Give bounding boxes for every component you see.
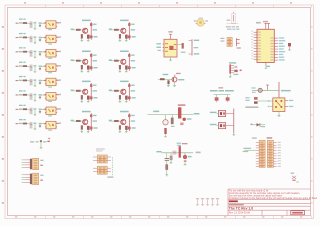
net label OUT1 bbox=[57, 22, 61, 23]
resistor pulldown R7p bbox=[81, 125, 83, 129]
global label IN8 bbox=[16, 123, 18, 124]
pin names right U1 bbox=[270, 37, 273, 60]
resistor base R7b bbox=[76, 120, 81, 122]
jumper JP1 bbox=[215, 95, 219, 103]
bottom margin zone numbers bbox=[15, 216, 302, 217]
reference text JP bbox=[218, 87, 223, 88]
fuse F2 bbox=[179, 146, 181, 158]
jumper JP2 bbox=[226, 95, 230, 103]
resistor R22 bbox=[167, 80, 169, 84]
collector rail wire Q3 bbox=[90, 53, 92, 71]
wire power bus bbox=[148, 114, 194, 116]
diode D41 bbox=[39, 65, 42, 70]
reference text RN1 bbox=[220, 38, 224, 42]
sheet text bbox=[229, 204, 244, 205]
ground Q6 right bbox=[125, 100, 128, 102]
net label base Q4 bbox=[109, 59, 112, 60]
pin stubs left K10 bbox=[270, 101, 273, 107]
label above Q4 bbox=[120, 51, 129, 53]
value text U1 bbox=[48, 29, 52, 30]
net label base Q3 bbox=[71, 59, 74, 60]
title block border bbox=[228, 189, 311, 216]
resistor pulldown R2p bbox=[119, 34, 121, 38]
pin stubs right K10 bbox=[285, 101, 288, 107]
value text U2 bbox=[48, 44, 52, 45]
wire cap feed bbox=[252, 89, 279, 91]
pin stubs RN3 left bbox=[93, 168, 97, 172]
capacitor C30 bbox=[171, 115, 175, 127]
ground Q7 right bbox=[87, 130, 90, 132]
diode D20 bbox=[234, 70, 237, 72]
pin label 4 bbox=[44, 66, 46, 67]
power flag PWR1 bbox=[196, 198, 199, 205]
wire K2 right bbox=[226, 125, 234, 127]
resistor pulldown R1p bbox=[81, 34, 83, 38]
resistor emitter R8e bbox=[125, 126, 128, 130]
value text C71 bbox=[33, 108, 36, 109]
value text D41 bbox=[261, 126, 265, 127]
net label right Q1 bbox=[93, 29, 98, 30]
transistor Q3 bbox=[83, 59, 88, 64]
ground filter bbox=[40, 147, 43, 150]
net label OUT8 bbox=[57, 123, 61, 124]
reference text left of K10 bbox=[245, 106, 258, 108]
collector rail wire Q7 bbox=[90, 113, 92, 131]
wire to opto row 2 bbox=[42, 37, 47, 39]
pin names left U1 bbox=[258, 32, 261, 61]
net label OUT4 bbox=[57, 65, 61, 66]
reference text C40 bbox=[252, 92, 256, 93]
wire input row 3 bbox=[17, 51, 24, 53]
wire C71 down bbox=[34, 108, 36, 115]
pin stubs RN2 right bbox=[107, 157, 111, 161]
resistor emitter R2e bbox=[125, 35, 128, 39]
reference text R31 bbox=[19, 51, 22, 52]
label above Q6 bbox=[120, 81, 129, 83]
wire input row 2 bbox=[17, 37, 24, 39]
no-connect flag bbox=[292, 176, 296, 179]
diode D51 bbox=[39, 80, 42, 85]
net label right Q5 bbox=[93, 90, 98, 91]
diode D7b bbox=[90, 127, 98, 130]
pin label 7 bbox=[44, 109, 46, 110]
pin label 1 bbox=[44, 23, 46, 24]
pin label 5 bbox=[44, 80, 46, 81]
ground Q9 left bbox=[167, 84, 170, 86]
svg-text:Rev 1.0 2014-03-08: Rev 1.0 2014-03-08 bbox=[229, 211, 251, 214]
base wire Q3 bbox=[71, 60, 82, 62]
base wire Q1 bbox=[71, 29, 82, 31]
bottom pin U10 bbox=[170, 57, 172, 60]
pin left LS1 bbox=[194, 20, 197, 23]
net label PS2 right bbox=[40, 175, 43, 181]
wire to opto row 7 bbox=[42, 108, 47, 110]
global label IN1 bbox=[16, 23, 18, 24]
pin right LS1 bbox=[204, 20, 208, 23]
wire C21 down bbox=[34, 36, 36, 43]
diode D5a bbox=[90, 84, 97, 87]
wire down to relay bbox=[278, 82, 280, 98]
net label NET8A bbox=[19, 119, 26, 120]
wire down to LED bbox=[165, 115, 167, 120]
label above Q3 bbox=[82, 51, 91, 53]
resistor emitter R6e bbox=[125, 96, 128, 100]
ground Q8 right bbox=[125, 130, 128, 132]
diode D3a bbox=[90, 54, 97, 57]
pin stubs left U10 bbox=[163, 44, 164, 51]
diode D21 bbox=[39, 37, 42, 42]
resistor pulldown R8p bbox=[119, 125, 121, 129]
wires P1 to PS1 bbox=[25, 160, 30, 168]
net label base Q5 bbox=[71, 90, 74, 91]
bottom pin K10 bbox=[278, 112, 280, 116]
value text U8 bbox=[48, 130, 52, 131]
pin header P2 bbox=[22, 175, 25, 183]
pin stub filter bbox=[47, 141, 49, 143]
resistor base R5b bbox=[76, 90, 81, 92]
pin header P1 bbox=[22, 160, 25, 168]
label above Q5 bbox=[82, 81, 91, 83]
connector body P2 bbox=[30, 174, 32, 185]
capacitor C61 bbox=[30, 93, 33, 100]
resistor R11 bbox=[23, 22, 27, 24]
transistor Q9 bbox=[172, 77, 177, 82]
label above Q7 bbox=[82, 111, 91, 113]
wire R51 to C51 bbox=[27, 80, 30, 82]
wire C31 down bbox=[34, 50, 36, 57]
power flag PWR5 bbox=[216, 198, 219, 205]
net label right Q4 bbox=[131, 60, 136, 61]
ground Q6 left bbox=[119, 100, 122, 103]
wire R41 to C41 bbox=[27, 65, 30, 67]
transistor Q1 bbox=[83, 28, 88, 33]
net label K2 bbox=[210, 124, 217, 125]
diode D71 bbox=[39, 108, 42, 113]
ground Q3 right bbox=[87, 70, 90, 72]
svg-text:All diodes mounted on the back: All diodes mounted on the back side of t… bbox=[229, 197, 318, 200]
value text C11 bbox=[33, 22, 36, 23]
wire R11 to C11 bbox=[27, 22, 30, 24]
diode D8a bbox=[128, 114, 134, 117]
note text gray bbox=[226, 26, 239, 27]
capacitor C20 bbox=[234, 66, 237, 68]
resistor R41 bbox=[23, 65, 27, 67]
wire into J3 bbox=[245, 149, 256, 151]
diode D41 bbox=[257, 123, 260, 126]
power flag PWR2 bbox=[201, 198, 204, 205]
resistor R21 bbox=[23, 37, 27, 39]
relay K10 bbox=[273, 98, 285, 112]
ground row 5 left bbox=[34, 85, 37, 88]
wire filter down bbox=[40, 143, 42, 148]
connector J2 bbox=[229, 64, 234, 73]
ground D50 bbox=[184, 162, 187, 165]
ground R50 bbox=[165, 175, 168, 177]
ground Q9 right bbox=[173, 82, 176, 86]
wire input row 7 bbox=[17, 108, 24, 110]
resistor pulldown R3p bbox=[81, 65, 83, 69]
global label IN6 bbox=[16, 94, 18, 95]
wire K1 right bbox=[226, 113, 234, 115]
ground R51 bbox=[170, 162, 173, 165]
ground J2 bbox=[229, 76, 232, 79]
label right edge lower bbox=[292, 180, 298, 183]
reference text right of wire bbox=[196, 152, 201, 154]
optocoupler U6 bbox=[45, 93, 57, 101]
net label NET3A bbox=[19, 47, 26, 48]
opto output K1 bbox=[218, 111, 225, 117]
net label right Q3 bbox=[93, 60, 98, 61]
microcontroller U1 bbox=[257, 29, 274, 62]
base wire Q7 bbox=[71, 120, 82, 122]
diode D81 bbox=[39, 123, 42, 128]
wire under SW1 bbox=[227, 23, 239, 25]
pin stub right bbox=[240, 70, 242, 72]
ground row 8 left bbox=[34, 128, 37, 131]
diode D6a bbox=[128, 84, 134, 87]
diode D61 bbox=[39, 94, 42, 99]
ground K10 bbox=[278, 115, 281, 117]
resistor R71 bbox=[23, 108, 27, 110]
net label base Q8 bbox=[109, 120, 112, 121]
note text blue bbox=[227, 29, 239, 30]
ground U1 bbox=[265, 67, 268, 70]
note label wide bbox=[210, 90, 234, 92]
pin stubs right U1 bbox=[274, 38, 278, 60]
value text U7 bbox=[48, 115, 52, 116]
wire input row 1 bbox=[17, 22, 24, 24]
diode D5 right of U1 bbox=[288, 43, 291, 50]
reference text Q9 bbox=[176, 73, 181, 74]
pin stubs RN2 left bbox=[93, 157, 97, 161]
driver parts left of K10 bbox=[245, 97, 269, 104]
resistor R31 bbox=[23, 51, 27, 53]
ground Q3 left bbox=[81, 69, 84, 72]
net label bus left bbox=[153, 111, 159, 113]
power symbol VDD U1 bbox=[264, 23, 267, 29]
reference text R51 bbox=[19, 80, 22, 81]
wire K2 left bbox=[217, 125, 219, 127]
transistor Q2 bbox=[121, 28, 126, 33]
transistor Q4 bbox=[121, 59, 126, 64]
value text C21 bbox=[33, 37, 36, 38]
ground Q4 left bbox=[119, 69, 122, 72]
value text C61 bbox=[33, 94, 36, 95]
wire to opto row 8 bbox=[42, 123, 47, 125]
net labels left of U10 bbox=[156, 43, 161, 51]
net label NET5A bbox=[19, 76, 26, 77]
value text C51 bbox=[33, 80, 36, 81]
right margin zone letters bbox=[311, 26, 313, 204]
inductor L1 bbox=[40, 140, 42, 142]
ground Q1 left bbox=[81, 39, 84, 42]
reference text R11 bbox=[19, 22, 22, 23]
wire input row 4 bbox=[17, 65, 24, 67]
transistor Q6 bbox=[121, 89, 126, 94]
ground Q2 left bbox=[119, 39, 122, 42]
rail wire right of U10 bbox=[191, 39, 193, 55]
reference text F2 bbox=[182, 143, 188, 144]
optocoupler U3 bbox=[45, 50, 57, 58]
wire R21 to C21 bbox=[27, 37, 30, 39]
wire jumper bus bbox=[214, 94, 231, 96]
wire to opto row 6 bbox=[42, 94, 47, 96]
wire J2 down bbox=[229, 74, 231, 77]
ground Q4 right bbox=[125, 70, 128, 72]
net label OUT7 bbox=[57, 108, 61, 109]
transistor Q7 bbox=[83, 119, 88, 124]
net label right Q9 bbox=[178, 79, 184, 80]
net label OUT3 bbox=[57, 51, 61, 52]
small marks below junction bbox=[180, 123, 183, 126]
value text C41 bbox=[33, 65, 36, 66]
value text U6 bbox=[48, 101, 52, 102]
value text U3 bbox=[48, 58, 52, 59]
connector body P1 bbox=[30, 159, 32, 170]
power symbol AVDD U1 bbox=[267, 23, 270, 29]
net label NET6A bbox=[19, 90, 26, 91]
value text U5 bbox=[48, 87, 52, 88]
wire C11 down bbox=[34, 22, 36, 29]
net label right Q6 bbox=[131, 90, 136, 91]
power flag PWR4 bbox=[211, 198, 214, 205]
resistor R30 bbox=[164, 128, 166, 134]
resistor emitter R3e bbox=[87, 66, 90, 70]
power symbol VCC above U10 bbox=[169, 34, 172, 39]
wire to opto row 3 bbox=[42, 51, 47, 53]
ground opto rail bbox=[233, 133, 236, 135]
resistor R21 bbox=[160, 78, 165, 80]
pin stubs left U1 bbox=[254, 32, 257, 60]
global label IN2 bbox=[16, 37, 18, 38]
label above Q8 bbox=[120, 111, 129, 113]
net label OUT6 bbox=[57, 94, 61, 95]
resistor R81 bbox=[23, 123, 27, 125]
net label right edge bbox=[291, 173, 295, 174]
capacitor C81 bbox=[30, 122, 33, 129]
wire C41 down bbox=[34, 65, 36, 72]
reference text SW1 bbox=[227, 20, 231, 21]
label above Q9 bbox=[163, 74, 169, 75]
collector rail wire Q8 bbox=[128, 113, 130, 131]
net label rail mid bbox=[194, 47, 199, 48]
net label NET7A bbox=[19, 105, 26, 106]
pin dots left K10 bbox=[268, 100, 270, 107]
power rail tap bbox=[237, 38, 240, 46]
capacitor C11 bbox=[30, 21, 33, 28]
net label PS1 right bbox=[40, 160, 43, 166]
net label below U1 bbox=[266, 66, 270, 68]
net label NET2A bbox=[19, 33, 26, 34]
net labels right U1 bbox=[279, 37, 286, 60]
power label above U10 bbox=[168, 31, 172, 32]
value text L1 bbox=[43, 141, 47, 142]
value text U4 bbox=[48, 72, 52, 73]
resistor base R3b bbox=[76, 60, 81, 62]
ground Q2 right bbox=[125, 39, 128, 41]
ground row 7 left bbox=[34, 114, 37, 117]
collector rail wire Q6 bbox=[128, 83, 130, 101]
buzzer LS1 bbox=[197, 19, 204, 26]
net label filter bbox=[30, 141, 34, 142]
net label right of D50 bbox=[188, 156, 192, 158]
net label right Q8 bbox=[131, 120, 136, 121]
value text C40 bbox=[251, 87, 255, 88]
wire RN right vertical bbox=[112, 157, 114, 176]
label above RN2 bbox=[96, 148, 105, 151]
ground Q5 right bbox=[87, 100, 90, 102]
net label right of rail bbox=[281, 90, 291, 92]
resistor base R4b bbox=[114, 60, 119, 62]
net label NET4A bbox=[19, 62, 26, 63]
net label below J2 bbox=[233, 74, 238, 75]
ground R30 bbox=[164, 134, 167, 137]
label above Q1 bbox=[82, 20, 91, 22]
net label power input bbox=[156, 151, 161, 152]
collector rail wire Q4 bbox=[128, 53, 130, 71]
wires P2 to PS2 bbox=[25, 175, 30, 183]
ground D5 bbox=[288, 49, 291, 52]
junction LED bbox=[183, 118, 186, 121]
reference text R41 bbox=[19, 65, 22, 66]
rail wire opto outputs bbox=[233, 109, 235, 134]
collector wire Q9 bbox=[174, 75, 176, 78]
resistor R20 right of U10 bbox=[177, 43, 185, 53]
label above J3 bbox=[252, 137, 257, 138]
base wire Q2 bbox=[109, 29, 120, 31]
base wire Q6 bbox=[109, 90, 120, 92]
LED D30 bbox=[163, 120, 168, 125]
diode D1a bbox=[90, 23, 97, 26]
net label above J2 bbox=[229, 62, 236, 63]
capacitor C40 bbox=[258, 88, 262, 92]
reference text R71 bbox=[19, 108, 22, 109]
value text C31 bbox=[33, 51, 36, 52]
wire to opto row 4 bbox=[42, 65, 47, 67]
pin label 3 bbox=[44, 51, 46, 52]
net label wire J3 bbox=[243, 148, 251, 149]
resistor pulldown R4p bbox=[119, 65, 121, 69]
opto output K2 bbox=[218, 123, 225, 129]
optocoupler U8 bbox=[45, 121, 57, 129]
ground row 1 left bbox=[34, 27, 37, 30]
net label base Q2 bbox=[109, 29, 112, 30]
global label IN5 bbox=[16, 80, 18, 81]
top margin zone numbers bbox=[24, 2, 292, 4]
wire R81 to C81 bbox=[27, 123, 30, 125]
reference text R21 bbox=[19, 37, 22, 38]
wire to opto row 1 bbox=[42, 22, 47, 24]
collector rail wire Q1 bbox=[90, 22, 92, 40]
pin numbers left U1 bbox=[251, 31, 253, 59]
resistor pulldown R5p bbox=[81, 95, 83, 99]
bottom margin zone ticks bbox=[46, 216, 312, 219]
pin stubs RN3 right bbox=[107, 168, 111, 172]
net label OUT2 bbox=[57, 36, 61, 37]
wire power input bbox=[162, 152, 194, 154]
capacitor C41 bbox=[30, 65, 33, 72]
net stub D41 bbox=[251, 124, 253, 126]
LED D50 bbox=[183, 153, 187, 162]
power label U1 top bbox=[263, 21, 268, 22]
diode D5b bbox=[90, 96, 98, 99]
left margin zone letters bbox=[2, 26, 4, 204]
optocoupler U5 bbox=[45, 78, 57, 86]
base wire Q9 bbox=[158, 78, 172, 80]
sheet number cell bbox=[291, 211, 305, 215]
switch SW1 bbox=[232, 12, 236, 23]
ground row 6 left bbox=[34, 99, 37, 102]
